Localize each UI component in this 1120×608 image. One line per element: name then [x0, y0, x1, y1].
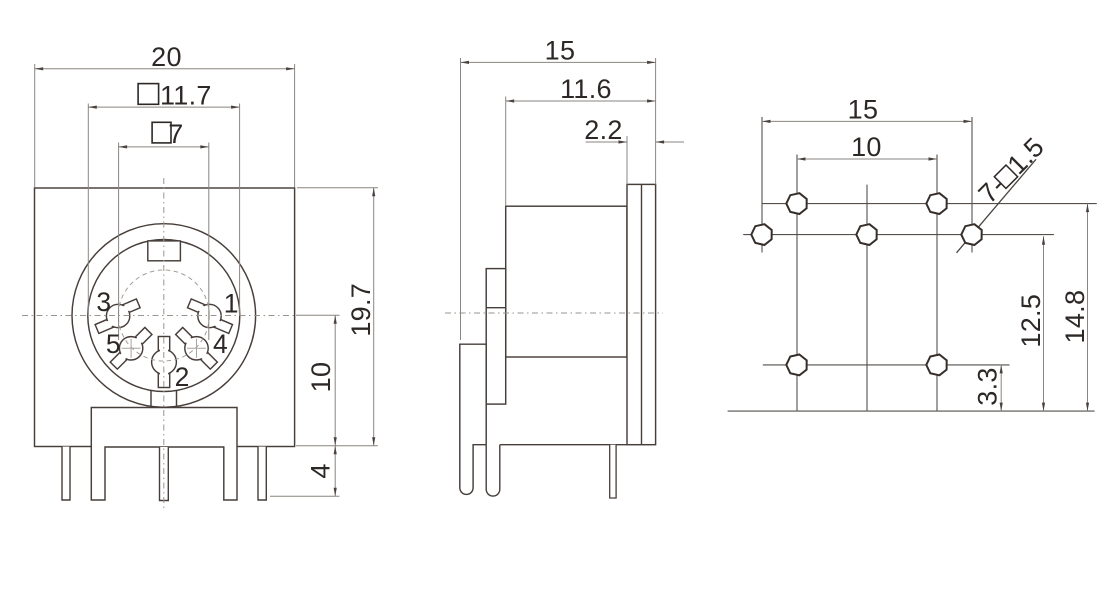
centerline vertical (front) [163, 178, 165, 508]
svg-text:2.2: 2.2 [584, 115, 622, 145]
dimension square-11.7 [88, 80, 239, 110]
svg-text:7: 7 [168, 119, 183, 149]
inner shell circle [88, 240, 240, 392]
svg-text:15: 15 [545, 36, 576, 66]
hole B2 [856, 224, 876, 245]
footprint holes [751, 193, 981, 375]
tab mid line [486, 307, 506, 309]
side flange plate [627, 184, 656, 444]
dimension 11.6 [506, 74, 656, 104]
cross mark pin 5 [122, 339, 141, 358]
extension lines (front) [35, 64, 378, 496]
mounting bracket (front view) [91, 408, 237, 501]
svg-text:12.5: 12.5 [1016, 294, 1046, 348]
hole C1 [786, 355, 806, 376]
centerline horizontal (front) [22, 315, 296, 317]
dimension 15 (footprint) [762, 94, 972, 124]
svg-text:10: 10 [851, 132, 882, 162]
svg-text:3.3: 3.3 [973, 367, 1003, 405]
svg-text:4: 4 [306, 463, 336, 478]
front terminal pin left [62, 447, 70, 500]
dimension 20 [35, 42, 295, 72]
footprint grid lines [728, 117, 1097, 411]
label 7-sq1.5 [973, 132, 1050, 209]
dimension 15 (side) [461, 36, 656, 66]
side bracket plate + front leg (rounded) [460, 344, 486, 494]
extension lines (side) [461, 58, 656, 340]
pin 3 [95, 299, 140, 333]
dimension 2.2 [584, 115, 684, 145]
centerline (side) [445, 312, 663, 314]
dimension 10 (front) [306, 315, 337, 446]
bottom shell tab [151, 391, 177, 408]
pin 2 [152, 337, 177, 388]
svg-text:14.8: 14.8 [1060, 290, 1090, 344]
pin 5 [110, 327, 152, 369]
dimension 12.5 [1016, 236, 1046, 411]
svg-text:20: 20 [151, 42, 182, 72]
hole C2 [926, 355, 946, 376]
dashed pin-circle (front) [118, 270, 209, 361]
dimension square-7 [119, 119, 209, 149]
svg-text:4: 4 [213, 329, 228, 359]
flange mid line [641, 184, 643, 444]
svg-text:5: 5 [106, 329, 121, 359]
hole B1 [751, 224, 771, 245]
side leg rear (rounded) [486, 445, 500, 496]
key notch rectangle [148, 241, 181, 261]
svg-text:1: 1 [224, 288, 239, 318]
pin 1 [187, 299, 232, 333]
dimension 3.3 [973, 365, 1003, 411]
pin 4 [176, 327, 218, 369]
connector body square (front view) [35, 188, 295, 447]
outer shell circle [72, 224, 256, 408]
dimension 4 [306, 446, 337, 496]
hole A1 [786, 193, 806, 214]
svg-text:15: 15 [848, 94, 879, 124]
cross mark pin 4 [187, 339, 206, 358]
dimension 10 (footprint) [797, 132, 937, 162]
svg-text:11.7: 11.7 [160, 80, 212, 110]
front terminal pin center [160, 447, 169, 501]
svg-text:2: 2 [175, 362, 190, 392]
leader line for 7-sq1.5 [957, 159, 1037, 253]
hole B3 [961, 224, 981, 245]
side body rectangle [506, 206, 627, 357]
side base bottom line [500, 444, 627, 446]
hole A2 [926, 193, 946, 214]
front terminal pin right [258, 447, 266, 500]
svg-text:11.6: 11.6 [560, 74, 612, 104]
dimension 19.7 [346, 188, 376, 446]
svg-text:3: 3 [96, 287, 111, 317]
svg-text:10: 10 [306, 362, 336, 393]
side terminal pin [610, 445, 616, 498]
dimension 14.8 [1060, 204, 1090, 412]
svg-text:19.7: 19.7 [346, 283, 376, 337]
side shell tab [486, 269, 506, 405]
